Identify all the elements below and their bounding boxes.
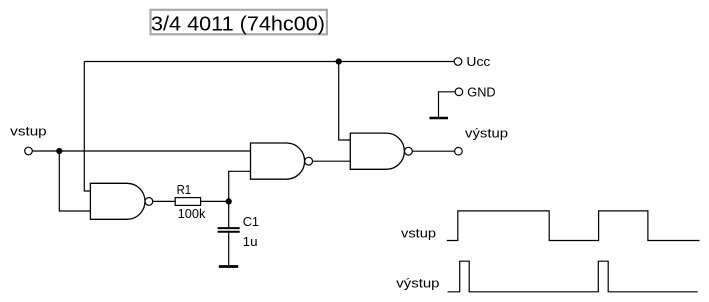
wire Ucc rail (top horizontal)	[84, 61, 454, 63]
wire U1C output to vystup terminal	[412, 150, 454, 152]
ground symbol (below C1)	[219, 265, 238, 268]
svg-text:vstup: vstup	[401, 226, 436, 241]
ground symbol (near GND terminal)	[430, 117, 449, 120]
wire R1 to node	[201, 200, 229, 202]
svg-text:3/4 4011 (74hc00): 3/4 4011 (74hc00)	[151, 13, 325, 35]
svg-text:100k: 100k	[178, 206, 206, 221]
resistor R1	[175, 198, 200, 206]
terminal vstup	[25, 147, 33, 155]
svg-text:C1: C1	[243, 214, 259, 229]
wire GND terminal to ground symbol	[439, 92, 456, 117]
wire U1B output to U1C input B	[313, 160, 351, 162]
junction node vstup	[56, 148, 62, 154]
wire junction down to gate U1A input B	[59, 151, 90, 211]
waveform vstup	[447, 211, 700, 241]
wire node up to gate U1B input B	[229, 171, 251, 201]
waveform vystup	[448, 261, 698, 292]
svg-text:vstup: vstup	[10, 124, 47, 139]
NAND gate U1A	[90, 183, 152, 219]
capacitor C1	[218, 228, 240, 232]
junction node R1/C1	[226, 198, 232, 204]
wire rail down to gate U1A input A	[84, 62, 90, 192]
title label box "3/4 4011 (74hc00)"	[151, 10, 327, 36]
wire vstup to gate U1B input A	[32, 150, 250, 152]
wire C1 to ground	[228, 233, 230, 266]
terminal GND	[455, 88, 463, 96]
svg-text:R1: R1	[177, 182, 192, 197]
wire U1A output to R1	[153, 200, 175, 202]
svg-text:Ucc: Ucc	[466, 54, 491, 69]
junction on Ucc rail	[336, 58, 342, 64]
terminal vystup	[455, 147, 463, 155]
svg-text:výstup: výstup	[396, 276, 439, 291]
svg-text:GND: GND	[467, 85, 495, 100]
wire node down to C1	[228, 201, 230, 227]
svg-text:1u: 1u	[243, 234, 258, 249]
NAND gate U1C	[350, 133, 412, 169]
svg-text:výstup: výstup	[465, 126, 508, 141]
wire rail junction down to gate U1C input A	[339, 62, 351, 141]
terminal Ucc	[454, 58, 462, 66]
NAND gate U1B	[251, 143, 313, 179]
